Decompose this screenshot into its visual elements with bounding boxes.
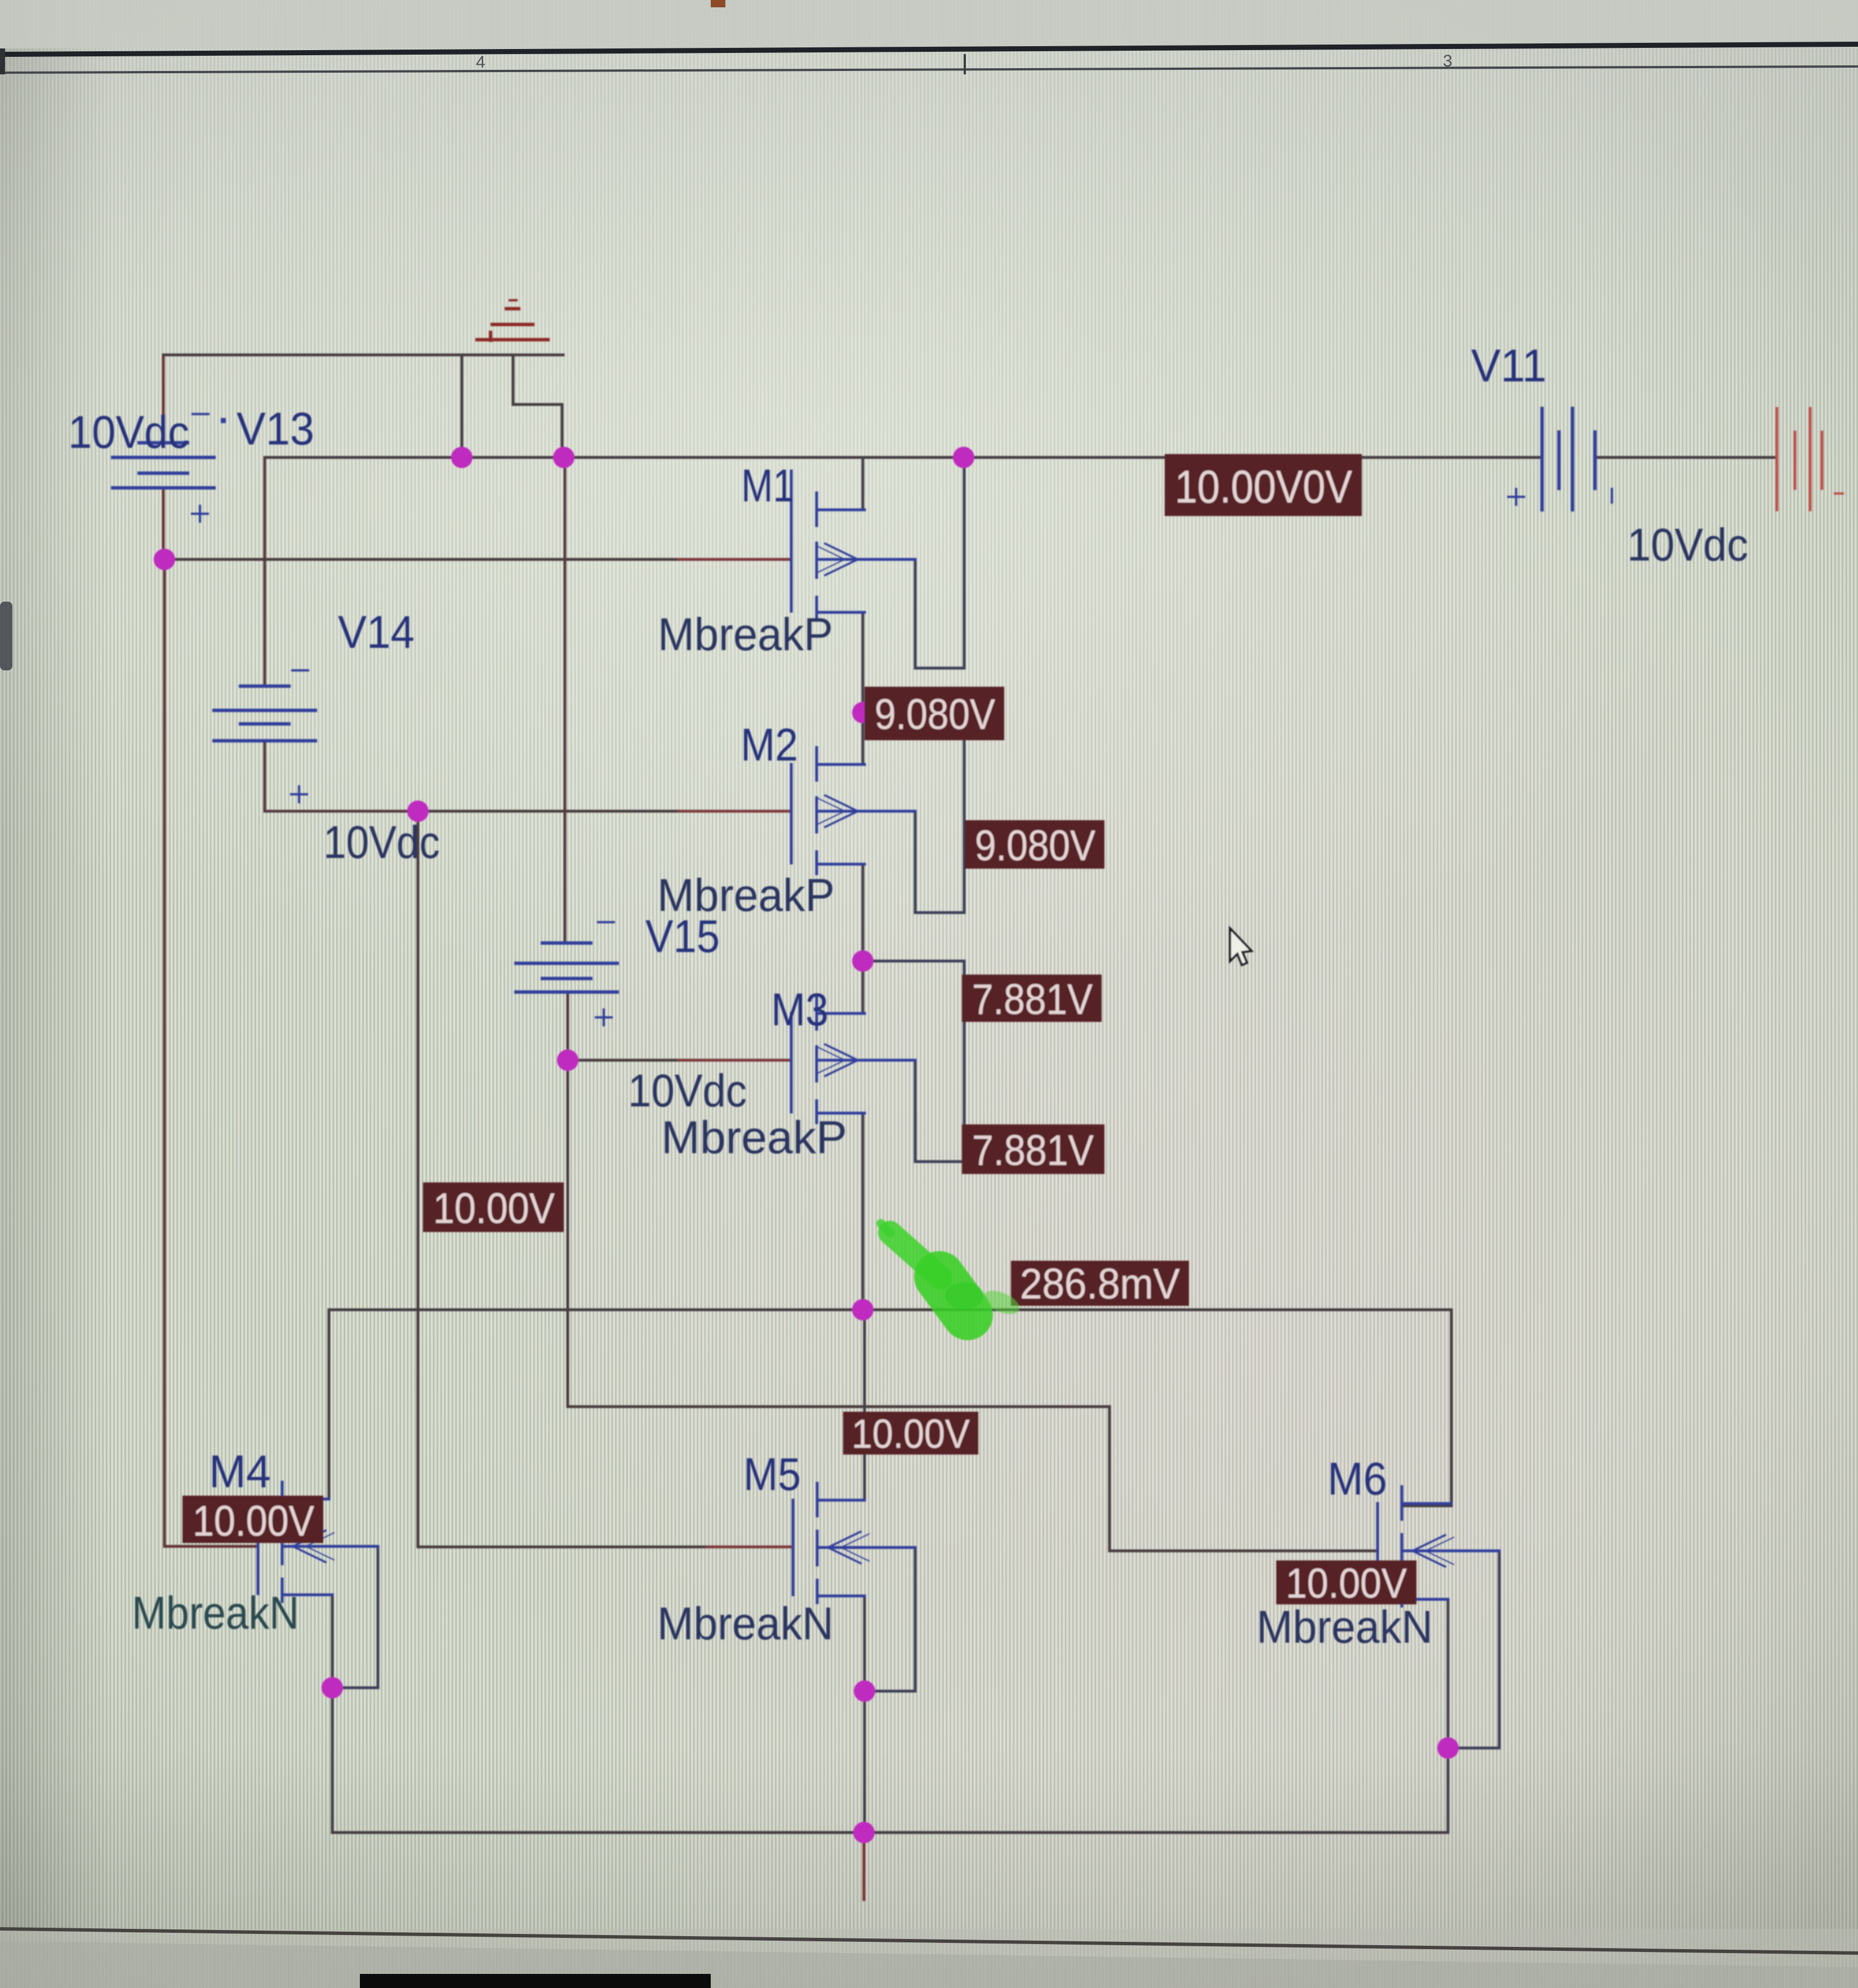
svg-text:9.080V: 9.080V [875, 691, 995, 739]
label M6 refdes [1327, 1453, 1387, 1505]
node M4 source junction [322, 1677, 343, 1698]
wire rail to V11 right side [1595, 456, 1777, 459]
svg-text:10Vdc: 10Vdc [628, 1065, 747, 1117]
transistor M3 (MbreakP) [791, 997, 915, 1123]
wire red-fringe segments near gates [679, 559, 791, 1547]
wire V15+ node to M3 gate [568, 1059, 791, 1062]
label M5 refdes [743, 1449, 801, 1500]
wire node B to M3 bulk riser [863, 961, 964, 1162]
wire M5 source down through node to bottom rail [863, 1596, 866, 1833]
screen top bezel band [0, 0, 1858, 74]
bias label 10.00V V15 net [843, 1412, 978, 1457]
node B M2/M3 junction [852, 950, 874, 972]
svg-text:10.00V: 10.00V [433, 1185, 555, 1233]
label M4 refdes [209, 1446, 271, 1497]
wire M4 bulk loop to source node [332, 1546, 378, 1688]
label M5 value MbreakN [657, 1598, 834, 1649]
battery V15 [516, 922, 617, 1025]
svg-text:MbreakN: MbreakN [132, 1587, 299, 1639]
bias label 10.00V V14 net [423, 1182, 564, 1233]
node rail junction left [451, 447, 473, 468]
svg-text:M6: M6 [1327, 1453, 1387, 1505]
green highlighter mark [881, 1224, 1023, 1319]
wire M3 drain up to node B [862, 961, 865, 1011]
wire V14+ node to M2 gate [418, 810, 791, 813]
wire V13 plus lead [162, 488, 165, 559]
wire output rail down to M4 drain [282, 1310, 329, 1499]
wire M2 source down to node B [862, 864, 865, 961]
node rail junction V15 [553, 447, 574, 468]
label V11 refdes [1471, 340, 1547, 392]
svg-text:MbreakN: MbreakN [1257, 1602, 1433, 1653]
node V13+ junction [154, 549, 175, 570]
svg-text:MbreakP: MbreakP [661, 1112, 847, 1163]
wire M2 drain up to node A [862, 713, 865, 762]
label M2 refdes [741, 719, 798, 771]
screen bottom edge [0, 1927, 1858, 1988]
svg-text:10Vdc: 10Vdc [68, 407, 189, 458]
svg-text:7.881V: 7.881V [972, 976, 1093, 1024]
label V14 refdes [338, 607, 415, 658]
left edge smudge [0, 602, 12, 670]
svg-text:MbreakP: MbreakP [658, 609, 833, 660]
svg-text:10Vdc: 10Vdc [1627, 519, 1748, 571]
wire V15 minus lead up to main rail [564, 457, 567, 943]
node M5 source junction [854, 1680, 875, 1702]
bias label 7.881V M3 bulk [962, 1124, 1104, 1175]
label M3 refdes [771, 984, 828, 1035]
svg-text:V13: V13 [237, 403, 314, 455]
wire V14+ node down to M5 gate [418, 811, 793, 1547]
svg-text:7.881V: 7.881V [972, 1127, 1094, 1175]
wire M6 bulk loop to source node [1448, 1551, 1499, 1748]
svg-text:9.080V: 9.080V [975, 822, 1095, 870]
svg-text:10.00V: 10.00V [193, 1497, 314, 1545]
node V14+ junction [407, 800, 429, 822]
wire node A to M2 bulk riser [863, 713, 964, 913]
wire top ground rail [163, 354, 563, 357]
label V15 value 10Vdc [628, 1065, 747, 1117]
label V13 refdes [237, 403, 314, 455]
wire output rail 286.8mV [329, 1309, 1451, 1311]
svg-text:10Vdc: 10Vdc [323, 817, 440, 868]
svg-text:M1: M1 [741, 460, 794, 512]
label M3 value MbreakP [661, 1112, 847, 1163]
wire M1 source down to node A [862, 612, 865, 713]
node A M1/M2 junction [852, 702, 874, 723]
svg-text:286.8mV: 286.8mV [1020, 1260, 1180, 1308]
node V15+ junction [557, 1049, 578, 1071]
bias label 9.080V M2 bulk [965, 820, 1104, 870]
wire M5 drain up to output rail node [863, 1310, 866, 1500]
mouse cursor [1230, 928, 1251, 965]
wire ground-rail step down to 10V rail [513, 355, 562, 457]
wire main horizontal rail (0V/10.00V net) [265, 456, 1542, 459]
wire M1 bulk loop to rail node [915, 457, 964, 668]
svg-text:M5: M5 [743, 1449, 801, 1500]
svg-text:M2: M2 [741, 719, 798, 771]
battery V14 [214, 670, 315, 802]
bias label 10.00V M4 gate net [182, 1496, 323, 1545]
label V14 value 10Vdc [323, 817, 440, 868]
wire M3 source down to output rail [862, 1113, 865, 1310]
label M6 value MbreakN [1257, 1602, 1433, 1653]
wire V15 plus lead to node [567, 992, 569, 1060]
label M4 value MbreakN [132, 1587, 299, 1639]
bias label 10.00V M6 gate net [1276, 1560, 1416, 1607]
label V15 refdes [645, 911, 720, 962]
transistor M5 (MbreakN) [793, 1483, 915, 1603]
transistor M6 (MbreakN) [1378, 1487, 1499, 1606]
label M2 value MbreakP [657, 870, 835, 921]
svg-text:10.00V0V: 10.00V0V [1175, 461, 1352, 513]
svg-text:V14: V14 [338, 607, 415, 658]
label M1 refdes [741, 460, 794, 512]
svg-text:4: 4 [476, 53, 485, 72]
transistor M4 (MbreakN) [258, 1482, 378, 1602]
wire M1 drain to rail [862, 457, 865, 510]
svg-text:M3: M3 [771, 984, 828, 1035]
transistor M2 (MbreakP) [791, 748, 915, 874]
svg-text:10.00V: 10.00V [852, 1412, 970, 1457]
battery V11 [1508, 408, 1612, 510]
wire V13+ node to M1 gate [164, 558, 791, 561]
wire output rail down to M6 drain [1402, 1310, 1451, 1506]
wire left vertical V13+ down to M4 gate [164, 559, 258, 1546]
transistor M1 (MbreakP) [791, 471, 915, 619]
label M1 value MbreakP [658, 609, 833, 660]
node bottom rail junction [853, 1822, 875, 1843]
svg-text:10.00V: 10.00V [1286, 1560, 1407, 1607]
wire vertical link ground rail to main rail [461, 355, 464, 457]
node rail junction M1 bulk [953, 447, 974, 468]
bias label 286.8mV output rail [1011, 1260, 1189, 1308]
wire stub below bottom rail [863, 1833, 866, 1900]
svg-text:V15: V15 [645, 911, 720, 962]
node M6 source junction [1437, 1737, 1459, 1759]
label V13 value 10Vdc [68, 407, 189, 458]
wire V13 minus lead up to ground rail [162, 355, 165, 443]
wire bottom rail [332, 1831, 1448, 1834]
wire M5 bulk loop to source node [865, 1547, 915, 1691]
wire V14 minus lead [264, 457, 266, 686]
wire M4 source down to bottom rail [331, 1595, 334, 1833]
bias label 7.881V node B [962, 975, 1102, 1024]
battery 0V reference symbol (red, right edge) [1777, 408, 1843, 510]
node output rail junction [852, 1299, 874, 1320]
bias label 10.00V0V main rail [1165, 454, 1362, 516]
bias label 9.080V node A [865, 687, 1004, 740]
ground [477, 300, 548, 340]
svg-text:M4: M4 [209, 1446, 271, 1497]
wire M6 source down to bottom rail [1447, 1599, 1450, 1833]
wire V14 plus lead to node [265, 741, 418, 811]
label V11 value 10Vdc [1627, 519, 1748, 571]
svg-text:MbreakN: MbreakN [657, 1598, 834, 1649]
svg-text:V11: V11 [1471, 340, 1547, 392]
svg-text:3: 3 [1443, 52, 1452, 70]
battery V13 [113, 414, 226, 522]
wire V15+ node down and across to M6 gate [568, 1060, 1378, 1551]
